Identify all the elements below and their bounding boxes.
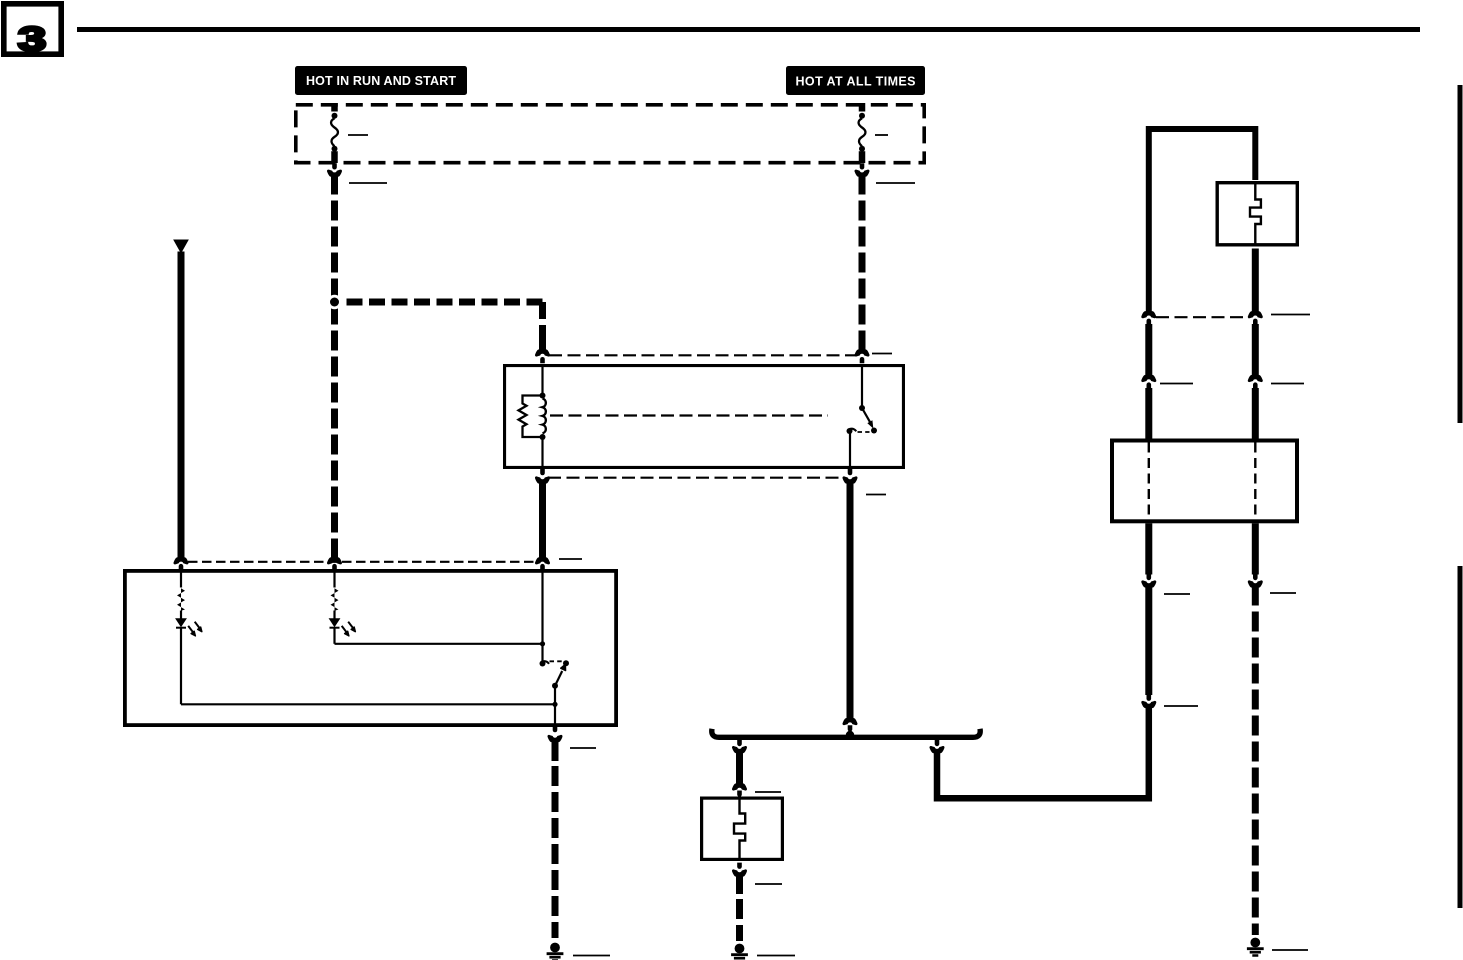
svg-text:HOT IN RUN AND START: HOT IN RUN AND START [306,74,456,88]
svg-text:3: 3 [18,21,46,59]
svg-text:HOT AT ALL TIMES: HOT AT ALL TIMES [796,75,916,89]
